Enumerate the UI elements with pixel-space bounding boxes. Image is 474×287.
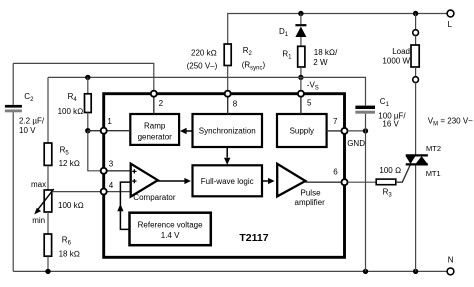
- svg-text:amplifier: amplifier: [295, 198, 326, 207]
- wire pin 1 to ramp generator: [107, 130, 131, 132]
- node junction C1/GND bottom rail: [363, 269, 368, 274]
- wire comparator to full-wave logic (arrow): [158, 178, 191, 184]
- wire -Vs node to pin 5: [300, 77, 302, 90]
- svg-text:N: N: [448, 255, 454, 264]
- pin 8: [225, 91, 238, 109]
- block ramp generator: [130, 114, 179, 145]
- svg-text:16 V: 16 V: [382, 119, 399, 128]
- svg-text:(250 V–): (250 V–): [187, 61, 218, 70]
- wire triac MT1 to bottom rail: [415, 166, 417, 272]
- svg-text:Ramp: Ramp: [144, 122, 166, 131]
- resistor R5 12 kOhm: [44, 143, 80, 168]
- svg-text:T2117: T2117: [239, 232, 268, 244]
- pin 3: [101, 159, 114, 173]
- pin 4: [101, 181, 114, 195]
- svg-text:Synchronization: Synchronization: [199, 126, 256, 135]
- node junction pin7 / C1: [363, 128, 368, 133]
- terminal L: [447, 10, 454, 29]
- node junction on top rail (load tap): [413, 11, 418, 16]
- svg-text:7: 7: [333, 117, 338, 126]
- pin 2: [151, 91, 164, 108]
- wire junction down to pin 3: [88, 131, 101, 171]
- resistor R1 18 kOhm / 2 W: [282, 46, 338, 67]
- wire bottom mains rail N: [13, 270, 447, 272]
- wire R2 to pin 8: [227, 66, 229, 91]
- wire reference voltage to comparator (arrow up): [117, 182, 130, 229]
- wire -Vs rail (horizontal) to C1: [48, 77, 366, 105]
- svg-text:8: 8: [233, 99, 238, 108]
- node junction D1 to top rail: [298, 11, 303, 16]
- wire pin 3 to comparator: [107, 170, 131, 172]
- wire R3 to triac gate: [396, 165, 411, 183]
- wire R1 to -Vs node: [300, 67, 302, 77]
- svg-text:Full-wave logic: Full-wave logic: [201, 177, 254, 186]
- wire junction to pin 1: [88, 130, 101, 132]
- svg-text:2: 2: [159, 99, 164, 108]
- wire C2 top rail to pin 2: [13, 63, 154, 90]
- svg-text:5: 5: [307, 99, 312, 108]
- node junction triac bottom rail: [413, 269, 418, 274]
- svg-text:Comparator: Comparator: [133, 193, 176, 202]
- triac: [406, 144, 441, 178]
- svg-text:Pulse: Pulse: [301, 188, 322, 197]
- svg-text:generator: generator: [138, 133, 173, 142]
- node junction R1 / -Vs rail: [298, 75, 303, 80]
- diode D1: [279, 14, 306, 47]
- potentiometer 100 kOhm (max/min): [31, 180, 84, 225]
- block supply: [277, 114, 327, 147]
- svg-text:2.2 µF/: 2.2 µF/: [19, 117, 45, 126]
- svg-text:1.4 V: 1.4 V: [161, 231, 180, 240]
- wire load to triac MT2: [415, 83, 417, 156]
- wire R5 to potentiometer: [47, 165, 49, 190]
- pin 7: [333, 117, 348, 134]
- wire load top lead: [415, 14, 417, 30]
- wire pin 4 to comparator: [107, 191, 132, 193]
- svg-text:18 kΩ/: 18 kΩ/: [314, 48, 338, 57]
- wire potentiometer to R6: [47, 212, 49, 234]
- svg-text:1000 W: 1000 W: [382, 57, 410, 66]
- wire top mains rail L: [228, 14, 447, 45]
- svg-text:100 kΩ: 100 kΩ: [58, 107, 84, 116]
- svg-text:MT2: MT2: [426, 144, 441, 153]
- wire pin 7 to GND node: [348, 130, 366, 132]
- svg-text:GND: GND: [347, 139, 365, 148]
- svg-text:Supply: Supply: [290, 126, 314, 135]
- svg-text:MT1: MT1: [426, 169, 441, 178]
- resistor R3 100 Ohm: [376, 166, 401, 199]
- IC T2117 outline U1: [104, 94, 345, 258]
- svg-text:220 kΩ: 220 kΩ: [191, 49, 217, 58]
- wire full-wave logic to pulse amplifier (arrow): [262, 178, 275, 184]
- wire pin 5 to supply: [300, 97, 302, 114]
- node junction R6 bottom rail: [45, 269, 50, 274]
- op-amp comparator: [131, 164, 176, 203]
- svg-text:12 kΩ: 12 kΩ: [59, 159, 80, 168]
- svg-text:L: L: [448, 20, 453, 29]
- svg-text:10 V: 10 V: [19, 126, 36, 135]
- svg-text:6: 6: [333, 168, 338, 177]
- wire potentiometer wiper to pin 4: [53, 191, 101, 193]
- svg-text:1: 1: [107, 117, 112, 126]
- svg-text:18 kΩ: 18 kΩ: [59, 250, 80, 259]
- pin 6: [333, 168, 347, 186]
- wire left rail below C2: [12, 112, 14, 271]
- load resistor (Load 1000 W): [382, 30, 419, 83]
- svg-text:min: min: [32, 216, 45, 225]
- wire pin 6 to R3: [348, 181, 377, 183]
- resistor R6 18 kOhm: [44, 234, 80, 259]
- svg-text:2 W: 2 W: [313, 58, 328, 67]
- wire synchronization to ramp generator (arrow): [180, 128, 193, 134]
- pin 1: [101, 117, 113, 134]
- terminal N: [447, 255, 454, 274]
- capacitor C2 2.2 uF / 10 V: [5, 92, 45, 135]
- svg-text:max: max: [31, 180, 46, 189]
- block reference voltage 1.4 V: [130, 213, 211, 246]
- svg-text:Reference voltage: Reference voltage: [138, 220, 203, 229]
- wire -Vs rail to R5: [47, 77, 49, 143]
- block full-wave logic: [193, 165, 263, 196]
- svg-text:100 Ω: 100 Ω: [379, 166, 401, 175]
- svg-text:3: 3: [109, 159, 114, 168]
- svg-text:4: 4: [109, 181, 114, 190]
- wire left rail above C2: [12, 63, 14, 104]
- wire pulse amplifier to pin 6: [305, 181, 341, 183]
- resistor R4 100 kOhm: [58, 77, 92, 130]
- pin 5: [298, 91, 312, 108]
- wire pin 2 to ramp generator: [153, 97, 155, 114]
- node junction R4 bottom / pin 1 / pin 3: [85, 128, 90, 133]
- capacitor C1 100 uF / 16 V: [355, 97, 406, 128]
- amplifier pulse amplifier: [277, 164, 325, 207]
- wire pin 8 to synchronization: [227, 97, 229, 114]
- resistor R2 220 kOhm (Rsync): [187, 44, 266, 72]
- svg-text:Load: Load: [392, 47, 410, 56]
- block synchronization: [193, 114, 263, 147]
- wire C1 to GND node and bottom rail: [365, 114, 367, 272]
- svg-text:100 kΩ: 100 kΩ: [58, 201, 84, 210]
- node junction R4 top on -Vs rail: [85, 75, 90, 80]
- wire R6 to bottom rail: [47, 256, 49, 271]
- wire synchronization to full-wave logic (arrow): [224, 147, 230, 165]
- wire supply to pin 7: [327, 130, 342, 132]
